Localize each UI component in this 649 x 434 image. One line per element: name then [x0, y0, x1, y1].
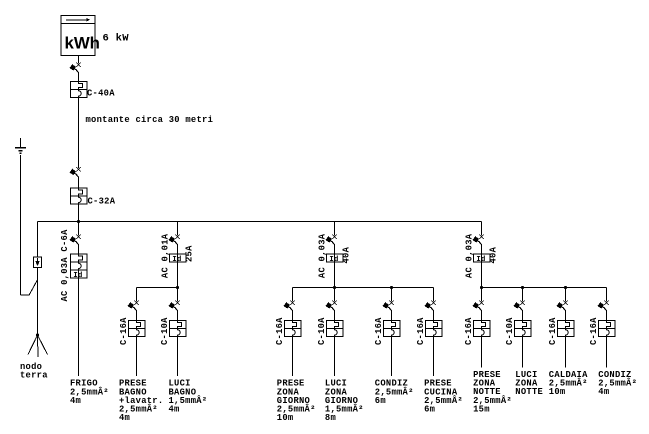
wire	[481, 245, 483, 254]
switch RCBO C-6A	[70, 235, 81, 245]
wire down	[391, 337, 393, 377]
wire	[292, 311, 294, 321]
wire sub-bus to switch	[136, 288, 138, 302]
wire	[606, 311, 608, 321]
earth conductor	[20, 155, 22, 295]
switch LUCI ZONA GIORNO	[326, 301, 337, 311]
label PRESE BAGNO	[119, 379, 163, 423]
wire	[177, 311, 179, 321]
junction main bus	[77, 220, 80, 223]
wire	[136, 311, 138, 321]
surge arrester SPD	[34, 257, 42, 268]
wire down	[522, 337, 524, 368]
wire sub-bus to switch	[391, 288, 393, 302]
svg-text:4m: 4m	[119, 413, 130, 423]
junction sub-bus g3 tap1	[521, 286, 524, 289]
svg-text:C-40A: C-40A	[87, 88, 115, 98]
wire sub-bus to switch	[606, 288, 608, 302]
wire	[565, 311, 567, 321]
switch PRESE BAGNO	[128, 301, 139, 311]
wire bus to switch	[177, 222, 179, 236]
label LUCI ZONA NOTTE	[515, 370, 543, 397]
breaker C-16A CONDIZ giorno	[383, 321, 400, 337]
label nodo terra	[20, 362, 48, 381]
wire sub-bus to switch	[565, 288, 567, 302]
svg-text:6 kW: 6 kW	[103, 33, 130, 45]
switch CALDAIA	[557, 301, 568, 311]
junction sub-bus g3 tap2	[564, 286, 567, 289]
wire down	[292, 337, 294, 377]
switch LUCI ZONA NOTTE	[514, 301, 525, 311]
wire FRIGO	[78, 278, 80, 376]
main distribution bus	[38, 221, 482, 223]
wire to bus	[78, 204, 80, 222]
wire down	[334, 337, 336, 377]
svg-text:AC 0,03A: AC 0,03A	[464, 233, 474, 278]
earth electrode symbol	[15, 138, 26, 153]
wire down	[177, 337, 179, 377]
RCBO C-6A with Id	[70, 254, 87, 280]
sub-bus giorno	[293, 287, 434, 289]
breaker C-32A	[70, 188, 87, 204]
svg-text:15m: 15m	[473, 404, 490, 414]
wire bus to SPD	[37, 222, 39, 258]
wire sub-bus to switch	[177, 288, 179, 302]
wire bus to switch	[334, 222, 336, 236]
breaker C-16A PRESE CUCINA	[425, 321, 442, 337]
switch PRESE CUCINA	[425, 301, 436, 311]
svg-text:C-16A: C-16A	[374, 317, 384, 345]
svg-text:C-10A: C-10A	[160, 317, 170, 345]
wire	[522, 311, 524, 321]
switch PRESE ZONA NOTTE	[473, 301, 484, 311]
label PRESE CUCINA	[424, 379, 463, 415]
breaker C-16A CONDIZ notte	[598, 321, 615, 337]
svg-text:kWh: kWh	[65, 34, 100, 53]
svg-text:C-16A: C-16A	[464, 317, 474, 345]
svg-text:C-16A: C-16A	[589, 317, 599, 345]
svg-text:40A: 40A	[488, 246, 498, 263]
wire bus to switch	[481, 222, 483, 236]
label CALDAIA	[549, 370, 588, 397]
switch S1 (main)	[70, 63, 81, 73]
switch CONDIZ giorno	[383, 301, 394, 311]
breaker C-10A LUCI ZONA GIORNO	[326, 321, 343, 337]
svg-text:AC 0,03A C-6A: AC 0,03A C-6A	[60, 229, 70, 302]
switch AC 0,03A 40A g2	[326, 235, 337, 245]
svg-text:AC 0,03A: AC 0,03A	[317, 233, 327, 278]
wire	[334, 311, 336, 321]
breaker C-16A PRESE ZONA GIORNO	[284, 321, 301, 337]
label CONDIZ notte	[598, 370, 637, 397]
svg-text:6m: 6m	[375, 396, 386, 406]
svg-text:4m: 4m	[70, 396, 81, 406]
switch AC 0,03A 40A g3	[473, 235, 484, 245]
svg-text:C-16A: C-16A	[119, 317, 129, 345]
wire	[391, 311, 393, 321]
svg-text:terra: terra	[20, 371, 48, 381]
wire bus to switch	[78, 222, 80, 236]
wire	[177, 245, 179, 254]
svg-text:C-16A: C-16A	[416, 317, 426, 345]
breaker C-40A	[70, 82, 87, 98]
wire down	[606, 337, 608, 368]
breaker C-10A LUCI ZONA NOTTE	[514, 321, 531, 337]
svg-text:C-16A: C-16A	[275, 317, 285, 345]
svg-text:40A: 40A	[341, 246, 351, 263]
label FRIGO	[70, 379, 109, 406]
breaker C-16A PRESE ZONA NOTTE	[473, 321, 490, 337]
svg-text:4m: 4m	[169, 405, 180, 415]
label CONDIZ giorno	[375, 379, 414, 406]
node terra junction	[36, 334, 39, 337]
svg-text:montante circa 30 metri: montante circa 30 metri	[86, 115, 214, 125]
wire RCD to sub-bus	[177, 262, 179, 288]
wire down	[136, 337, 138, 377]
breaker C-16A CALDAIA	[557, 321, 574, 337]
sub-bus notte	[482, 287, 607, 289]
switch PRESE ZONA GIORNO	[284, 301, 295, 311]
junction sub-bus bath	[176, 286, 179, 289]
wire	[78, 73, 80, 82]
RCD AC 0,03A 40A g3	[473, 254, 490, 264]
wire sub-bus to switch	[334, 288, 336, 302]
junction sub-bus g3 feed	[480, 286, 483, 289]
wire down	[481, 337, 483, 368]
svg-text:AC 0,01A: AC 0,01A	[160, 233, 170, 278]
svg-text:C-10A: C-10A	[505, 317, 515, 345]
wire meter to switch	[78, 56, 80, 64]
switch LUCI BAGNO	[169, 301, 180, 311]
breaker C-10A LUCI BAGNO	[169, 321, 186, 337]
label LUCI ZONA GIORNO	[325, 379, 364, 423]
wire	[334, 245, 336, 254]
svg-text:NOTTE: NOTTE	[515, 387, 543, 397]
earth link blade	[29, 280, 38, 295]
label PRESE ZONA GIORNO	[277, 379, 316, 423]
svg-text:C-16A: C-16A	[548, 317, 558, 345]
svg-text:C-10A: C-10A	[317, 317, 327, 345]
wire montante	[78, 98, 80, 169]
RCD AC 0,01A 25A	[169, 254, 186, 264]
terra legs	[28, 335, 48, 357]
RCD AC 0,03A 40A g2	[326, 254, 343, 264]
switch CONDIZ notte	[598, 301, 609, 311]
kWh meter M1	[61, 16, 100, 56]
wire SPD to nodo terra	[37, 268, 39, 336]
wire down	[433, 337, 435, 377]
label LUCI BAGNO	[169, 379, 208, 415]
wire sub-bus to switch	[522, 288, 524, 302]
wire sub-bus to switch	[433, 288, 435, 302]
wire	[481, 311, 483, 321]
svg-text:10m: 10m	[549, 387, 566, 397]
wire down	[565, 337, 567, 368]
wire sub-bus to switch	[481, 288, 483, 302]
label PRESE ZONA NOTTE	[473, 370, 512, 414]
wire	[78, 245, 80, 254]
wire sub-bus to switch	[292, 288, 294, 302]
svg-text:25A: 25A	[184, 245, 194, 262]
svg-text:4m: 4m	[598, 387, 609, 397]
wire	[78, 177, 80, 188]
earth link horizontal	[21, 294, 30, 296]
breaker C-16A PRESE BAGNO	[128, 321, 145, 337]
svg-text:6m: 6m	[424, 405, 435, 415]
junction sub-bus g2 feed	[333, 286, 336, 289]
sub-bus bath	[137, 287, 178, 289]
svg-text:10m: 10m	[277, 413, 294, 423]
junction sub-bus g2 tap	[390, 286, 393, 289]
wire RCD to sub-bus	[481, 262, 483, 288]
wire RCD to sub-bus	[334, 262, 336, 288]
svg-text:8m: 8m	[325, 413, 336, 423]
switch AC 0,01A 25A	[169, 235, 180, 245]
svg-text:C-32A: C-32A	[88, 197, 116, 207]
wire	[433, 311, 435, 321]
switch S2	[70, 167, 81, 177]
